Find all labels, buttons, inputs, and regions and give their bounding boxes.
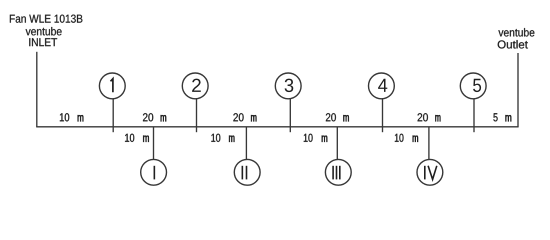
station IV leader [428,127,430,160]
inlet leader line [36,52,38,127]
station III circle [325,159,351,185]
dimension 20 m (1 to 2) [143,113,153,121]
label: Fan WLE 1013B / ventube / INLET [10,15,83,23]
station IV numeral [425,166,437,180]
station 3 circle [275,73,301,99]
station 4 circle [369,73,395,99]
dimension 10 m (2 to II) [211,134,220,142]
station 5 number [473,79,481,92]
station IV circle [417,159,443,185]
dimension 20 m (4 to 5) [418,113,428,121]
label: ventube / Outlet [498,28,534,36]
station I leader [153,127,155,160]
dimension 10 m (4 to IV) [395,134,404,142]
station 2 circle [182,73,208,99]
station 2 number [192,79,201,92]
station 1 circle [99,73,125,99]
station 1 number [111,79,113,93]
station 5 leader/tick [473,99,475,132]
dimension 10 m (3 to III) [304,134,313,142]
station III leader [336,127,338,160]
station 4 number [378,79,387,92]
station I circle [141,159,167,185]
station 1 leader/tick [112,99,114,132]
dimension 10 m (inlet to 1) [60,113,69,121]
station 3 number [285,79,294,93]
station 2 leader/tick [196,99,198,132]
station 4 leader/tick [382,99,384,132]
dimension 10 m (1 to I) [125,134,134,142]
station III numeral [333,166,340,180]
duct main line [36,126,518,128]
dimension 20 m (2 to 3) [233,113,243,121]
dimension 20 m (3 to 4) [326,113,336,121]
station 5 circle [460,73,486,99]
station II numeral [242,166,246,180]
station II leader [245,127,247,160]
dimension 5 m (5 to outlet) [493,113,497,121]
outlet leader line [517,53,519,127]
station I numeral [153,166,155,180]
station II circle [234,159,260,185]
station 3 leader/tick [289,99,291,132]
